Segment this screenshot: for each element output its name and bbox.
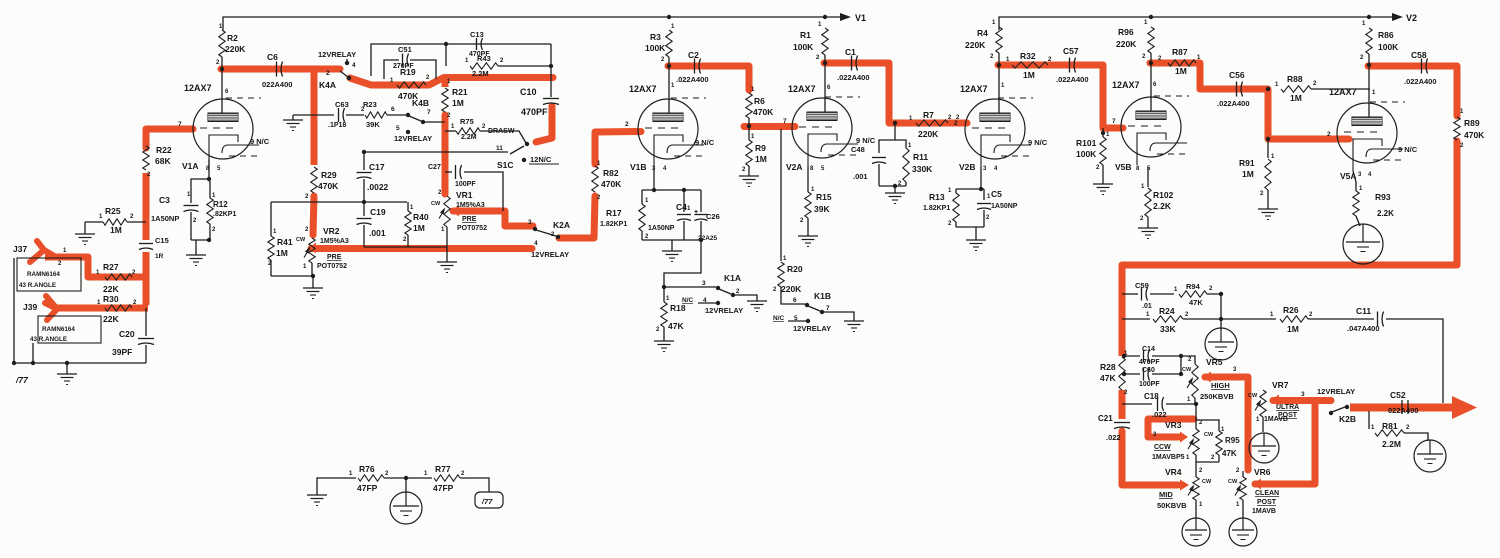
svg-text:CLEAN: CLEAN xyxy=(1255,490,1279,497)
resistor R20 xyxy=(780,129,782,261)
svg-text:12VRELAY: 12VRELAY xyxy=(793,324,831,333)
svg-text:R94: R94 xyxy=(1186,282,1201,291)
ground for R18 xyxy=(654,340,674,342)
ground for VR2 xyxy=(303,287,323,289)
svg-text:3: 3 xyxy=(1301,391,1305,398)
svg-text:1M: 1M xyxy=(110,225,122,235)
svg-text:1A50NP: 1A50NP xyxy=(991,203,1018,210)
svg-text:V5B: V5B xyxy=(1115,162,1132,172)
wire red highlight: R6/R9 node to V2A grid pin7 xyxy=(744,123,795,130)
jack ground for R81 xyxy=(1414,440,1446,472)
svg-text:K2A: K2A xyxy=(553,220,570,230)
svg-text:C11: C11 xyxy=(1356,306,1371,316)
svg-text:CW: CW xyxy=(1182,367,1192,373)
ground for R91 xyxy=(1258,208,1278,210)
capacitor C26 xyxy=(700,190,702,212)
svg-text:R29: R29 xyxy=(321,170,337,180)
wire red highlight: R21 node blob xyxy=(442,77,449,87)
wire red highlight: J37 input fork xyxy=(30,250,56,262)
svg-text:V1B: V1B xyxy=(630,162,647,172)
svg-text:12AX7: 12AX7 xyxy=(1329,87,1357,97)
resistor R81 xyxy=(1368,411,1370,429)
svg-text:12VRELAY: 12VRELAY xyxy=(1317,387,1355,396)
svg-text:R7: R7 xyxy=(923,110,934,120)
svg-text:R1: R1 xyxy=(800,30,811,40)
svg-text:1MAVB: 1MAVB xyxy=(1264,416,1288,423)
svg-text:CW: CW xyxy=(1248,393,1258,399)
svg-text:220K: 220K xyxy=(965,40,986,50)
svg-text:RAMN6164: RAMN6164 xyxy=(42,326,75,333)
svg-text:R76: R76 xyxy=(359,464,375,474)
svg-text:250KBVB: 250KBVB xyxy=(1200,392,1234,401)
svg-text:R40: R40 xyxy=(413,212,429,222)
cathode network V1B xyxy=(653,167,655,190)
svg-text:R75: R75 xyxy=(460,117,474,126)
jack ground for VR7 xyxy=(1249,433,1279,463)
jack ground VR5 node xyxy=(1220,319,1222,329)
svg-text:12AX7: 12AX7 xyxy=(1112,80,1140,90)
svg-text:POST: POST xyxy=(1257,499,1277,506)
svg-text:R6: R6 xyxy=(754,96,765,106)
svg-text:50KBVB: 50KBVB xyxy=(1157,501,1187,510)
svg-text:CCW: CCW xyxy=(1154,444,1171,451)
svg-text:1.82KP1: 1.82KP1 xyxy=(600,221,627,228)
capacitor C5 xyxy=(983,189,985,200)
svg-text:220K: 220K xyxy=(1116,39,1137,49)
svg-text:VR7: VR7 xyxy=(1272,380,1289,390)
svg-text:.022A400: .022A400 xyxy=(837,73,870,82)
svg-text:C5: C5 xyxy=(991,189,1002,199)
svg-text:R2: R2 xyxy=(227,33,238,43)
svg-text:100K: 100K xyxy=(1378,42,1399,52)
svg-text:C63: C63 xyxy=(335,100,349,109)
svg-text:POT0752: POT0752 xyxy=(457,225,487,232)
resistor R22 xyxy=(143,146,149,170)
svg-text:220K: 220K xyxy=(225,44,246,54)
svg-text:C13: C13 xyxy=(470,30,484,39)
svg-text:/77: /77 xyxy=(15,375,29,385)
svg-text:R18: R18 xyxy=(670,303,686,313)
wire C11 to output node xyxy=(1386,319,1443,403)
relay contact K1A xyxy=(664,286,716,288)
svg-text:R87: R87 xyxy=(1172,47,1188,57)
svg-text:C4: C4 xyxy=(676,202,687,212)
svg-text:C26: C26 xyxy=(706,212,720,221)
wire red highlight: C10 down to S1C pin 10 xyxy=(536,106,552,142)
svg-text:1.82KP1: 1.82KP1 xyxy=(923,205,950,212)
ground for VR1/C19/R40 xyxy=(437,261,457,263)
svg-text:C27: C27 xyxy=(428,164,441,171)
svg-text:MID: MID xyxy=(1159,490,1173,499)
svg-text:R22: R22 xyxy=(156,145,172,155)
ground for V1B cathode xyxy=(662,250,682,252)
svg-text:4: 4 xyxy=(534,240,538,247)
svg-text:39K: 39K xyxy=(814,204,830,214)
ground for R25 xyxy=(84,222,86,234)
capacitor C59 xyxy=(1122,293,1138,295)
ground for V2B cathode xyxy=(966,239,986,241)
svg-text:R41: R41 xyxy=(277,237,293,247)
svg-text:C10: C10 xyxy=(520,87,537,97)
svg-text:R25: R25 xyxy=(105,206,121,216)
switch S1C xyxy=(525,142,529,146)
wire red highlight: VR7 wiper arrow line to K2B xyxy=(1271,395,1279,406)
svg-text:K1B: K1B xyxy=(814,291,831,301)
svg-text:270PF: 270PF xyxy=(393,63,414,70)
svg-text:R102: R102 xyxy=(1153,190,1174,200)
svg-text:R28: R28 xyxy=(1100,362,1116,372)
capacitor C19 xyxy=(362,200,366,204)
wire input ground bus xyxy=(14,362,146,364)
wire V1 plate supply bus xyxy=(223,17,843,30)
wire cathode bottom join V2B xyxy=(956,226,984,228)
ground for R102 xyxy=(1138,227,1158,229)
svg-text:12AX7: 12AX7 xyxy=(184,83,212,93)
svg-text:47K: 47K xyxy=(1189,298,1203,307)
svg-text:2.2K: 2.2K xyxy=(1153,201,1172,211)
svg-text:CW: CW xyxy=(1204,432,1214,438)
svg-text:N/C: N/C xyxy=(773,315,785,322)
resistor R13 xyxy=(955,189,957,193)
svg-text:470K: 470K xyxy=(398,91,419,101)
svg-text:J39: J39 xyxy=(23,302,37,312)
potentiometer VR3 CCW xyxy=(1195,404,1197,429)
svg-text:9 N/C: 9 N/C xyxy=(1398,145,1418,154)
svg-text:VR3: VR3 xyxy=(1165,420,1182,430)
svg-text:R86: R86 xyxy=(1378,30,1394,40)
wire red highlight: below R89 down to bottom return line xyxy=(1122,141,1457,265)
wire red highlight: VR3 loop arrow xyxy=(1148,419,1194,437)
svg-text:47FP: 47FP xyxy=(433,483,454,493)
capacitor C51 xyxy=(384,60,399,79)
cathode network V1A xyxy=(208,159,210,179)
svg-text:.022A400: .022A400 xyxy=(1404,77,1437,86)
ground for R76 xyxy=(307,494,327,496)
svg-text:C52: C52 xyxy=(1390,390,1406,400)
svg-text:470K: 470K xyxy=(1464,130,1485,140)
svg-text:220K: 220K xyxy=(781,284,802,294)
svg-text:C20: C20 xyxy=(119,329,135,339)
wire J37 left leg to bottom bus xyxy=(13,258,15,363)
wire red highlight: big output arrow xyxy=(1452,396,1477,419)
svg-text:1M: 1M xyxy=(1023,70,1035,80)
svg-text:1M: 1M xyxy=(1175,66,1187,76)
wire VR3 bottom to VR4 xyxy=(1195,455,1197,477)
svg-text:330K: 330K xyxy=(912,164,933,174)
resistor R101 xyxy=(1101,131,1105,135)
wire red highlight: C21 down and right to VR4 wiper arrow xyxy=(1122,431,1178,485)
svg-text:100K: 100K xyxy=(793,42,814,52)
svg-text:HIGH: HIGH xyxy=(1211,381,1230,390)
svg-text:7: 7 xyxy=(427,109,431,116)
svg-text:R43: R43 xyxy=(477,54,491,63)
wire red highlight: J37 to R27 line xyxy=(45,257,146,277)
svg-text:022A400: 022A400 xyxy=(1388,406,1418,415)
svg-text:CW: CW xyxy=(296,237,306,243)
capacitor C60 xyxy=(1122,372,1126,376)
capacitor C20 xyxy=(145,308,147,336)
svg-text:C56: C56 xyxy=(1229,70,1245,80)
wire red highlight: R29 to VR2 top xyxy=(313,196,314,235)
ground for R101 xyxy=(1093,183,1113,185)
wire VR2 bottom to ground xyxy=(311,263,313,276)
svg-text:R20: R20 xyxy=(787,264,803,274)
svg-text:3: 3 xyxy=(702,280,706,287)
wire red highlight: VR1 wiper to K2A pin3 xyxy=(451,206,459,217)
svg-text:V2B: V2B xyxy=(959,162,976,172)
svg-text:9 N/C: 9 N/C xyxy=(1028,138,1048,147)
wire K1A feed xyxy=(664,240,701,287)
svg-text:39K: 39K xyxy=(366,120,380,129)
svg-text:.01: .01 xyxy=(1142,303,1152,310)
svg-text:ULTRA: ULTRA xyxy=(1276,404,1299,411)
wire red highlight: V5A plate node through C58 and down right edge xyxy=(1368,66,1457,116)
svg-text:.1P18: .1P18 xyxy=(328,122,346,129)
svg-text:C48: C48 xyxy=(851,145,865,154)
svg-text:1M: 1M xyxy=(755,154,767,164)
wire red highlight: J39/R30 line to C20 node xyxy=(52,305,148,312)
svg-text:3: 3 xyxy=(528,219,532,226)
wire J39 left leg xyxy=(32,343,34,363)
svg-text:12N/C: 12N/C xyxy=(530,155,552,164)
svg-text:R91: R91 xyxy=(1239,158,1255,168)
svg-text:1M5%A3: 1M5%A3 xyxy=(320,238,349,245)
svg-text:9 N/C: 9 N/C xyxy=(856,136,876,145)
svg-text:7: 7 xyxy=(826,305,830,312)
ground for C48/R11 xyxy=(885,192,905,194)
wire red highlight: R21 bottom to VR1 top xyxy=(442,115,449,194)
svg-text:.0022: .0022 xyxy=(367,182,389,192)
svg-text:1M: 1M xyxy=(1290,93,1302,103)
svg-text:C14: C14 xyxy=(1142,346,1155,353)
svg-text:12AX7: 12AX7 xyxy=(960,84,988,94)
svg-text:1A50NP: 1A50NP xyxy=(648,225,675,232)
svg-text:1M: 1M xyxy=(413,223,425,233)
svg-text:1M: 1M xyxy=(1287,324,1299,334)
svg-text:470K: 470K xyxy=(601,179,622,189)
resistor R9 xyxy=(748,127,750,140)
jack ground center tap xyxy=(405,478,407,493)
jack ground for VR4 xyxy=(1182,518,1210,546)
svg-text:.001: .001 xyxy=(853,172,868,181)
svg-text:2: 2 xyxy=(1327,131,1331,138)
resistor R91 xyxy=(1266,137,1270,141)
chassis ground /77 symbol xyxy=(475,492,503,508)
svg-text:68K: 68K xyxy=(155,156,171,166)
resistor R18 xyxy=(663,287,665,302)
svg-text:5: 5 xyxy=(396,125,400,132)
svg-text:100PF: 100PF xyxy=(1139,381,1160,388)
svg-text:K1A: K1A xyxy=(724,273,741,283)
svg-text:R26: R26 xyxy=(1283,305,1299,315)
capacitor C48 xyxy=(879,123,895,153)
svg-text:022A400: 022A400 xyxy=(262,80,292,89)
svg-text:C17: C17 xyxy=(369,162,385,172)
svg-text:CW: CW xyxy=(1202,479,1212,485)
resistor R75 xyxy=(445,130,456,132)
svg-text:VR1: VR1 xyxy=(456,190,473,200)
svg-text:2.2M: 2.2M xyxy=(461,134,477,141)
svg-text:C21: C21 xyxy=(1098,414,1113,423)
svg-text:J37: J37 xyxy=(13,244,27,254)
svg-text:22K: 22K xyxy=(103,314,119,324)
ground for K1B xyxy=(844,320,864,322)
svg-text:V2: V2 xyxy=(1406,13,1417,23)
svg-text:C3: C3 xyxy=(159,195,170,205)
svg-text:2.2K: 2.2K xyxy=(1377,209,1394,218)
wire C48/R11 bottom join xyxy=(879,185,906,187)
svg-text:C2: C2 xyxy=(688,50,699,60)
capacitor C15 xyxy=(139,243,153,245)
svg-text:.022A400: .022A400 xyxy=(1056,75,1089,84)
svg-text:9 N/C: 9 N/C xyxy=(250,137,270,146)
ground for C63 line xyxy=(292,115,294,120)
svg-text:1M: 1M xyxy=(452,98,464,108)
svg-text:43 R.ANGLE: 43 R.ANGLE xyxy=(30,336,67,343)
svg-text:R81: R81 xyxy=(1382,421,1398,431)
capacitor C27 parallel over VR1 xyxy=(445,171,452,173)
wire red highlight: K4A pin3 through R19 to R21/C10 node xyxy=(350,78,553,86)
resistor R29 xyxy=(311,167,317,193)
svg-text:R32: R32 xyxy=(1020,51,1036,61)
svg-text:47K: 47K xyxy=(668,321,684,331)
wire red highlight: input riser through C15 and R22 to V1A grid pin7 xyxy=(143,252,150,305)
resistor R17 xyxy=(641,190,643,204)
svg-text:470K: 470K xyxy=(318,181,339,191)
svg-text:2: 2 xyxy=(954,120,958,127)
svg-text:2: 2 xyxy=(625,121,629,128)
svg-text:.047A400: .047A400 xyxy=(1347,324,1380,333)
svg-text:.82KP1: .82KP1 xyxy=(213,211,236,218)
wire VR2 grid node xyxy=(271,201,407,203)
jack ground for VR6 xyxy=(1229,518,1257,546)
svg-text:C19: C19 xyxy=(370,207,386,217)
svg-text:R24: R24 xyxy=(1159,306,1175,316)
svg-text:.022: .022 xyxy=(1106,433,1121,442)
wire cathode bottom bus V1B xyxy=(642,239,701,241)
ground for V1A cathode xyxy=(186,254,206,256)
svg-text:CW: CW xyxy=(1228,479,1238,485)
svg-text:K4A: K4A xyxy=(319,80,336,90)
svg-text:RAMN6164: RAMN6164 xyxy=(27,271,60,278)
svg-text:V1: V1 xyxy=(855,13,866,23)
wire cathode bottom join xyxy=(191,239,210,241)
svg-text:.022A400: .022A400 xyxy=(1217,99,1250,108)
svg-text:47K: 47K xyxy=(1100,373,1116,383)
svg-text:1M5%A3: 1M5%A3 xyxy=(456,202,485,209)
resistor R95 xyxy=(1196,420,1219,431)
svg-text:R9: R9 xyxy=(755,143,766,153)
cathode network V5B resistor R102 xyxy=(1147,167,1149,187)
wire red highlight: VR6 wiper arrow line up to K2B pin3 xyxy=(1253,479,1261,490)
svg-text:7: 7 xyxy=(1112,118,1116,125)
wire red highlight: V2B plate through R32 and C57 down to V5B grid pin7 xyxy=(998,65,1123,128)
cathode network V2B xyxy=(980,167,982,189)
svg-text:PRE: PRE xyxy=(327,254,342,261)
jack ground for V5A cathode xyxy=(1343,224,1383,264)
cathode network V2A resistor R15 xyxy=(807,166,809,192)
svg-text:12AX7: 12AX7 xyxy=(629,84,657,94)
svg-text:R17: R17 xyxy=(606,208,622,218)
resistor R40 xyxy=(407,202,409,211)
resistor R12 xyxy=(209,179,210,198)
wire red highlight: drop from C6 line to R29 xyxy=(311,70,318,165)
svg-text:R27: R27 xyxy=(103,262,119,272)
svg-text:12AX7: 12AX7 xyxy=(788,84,816,94)
svg-text:S1C: S1C xyxy=(497,160,514,170)
svg-text:1A50NP: 1A50NP xyxy=(151,214,179,223)
svg-text:11: 11 xyxy=(496,145,503,152)
svg-text:.022A400: .022A400 xyxy=(676,75,709,84)
svg-text:2: 2 xyxy=(326,70,330,77)
svg-text:R88: R88 xyxy=(1287,74,1303,84)
capacitor C18 xyxy=(1122,403,1152,405)
svg-text:VR2: VR2 xyxy=(323,226,340,236)
svg-text:C15: C15 xyxy=(155,236,169,245)
wire red highlight: K2A pin2 up through R82 to V1B grid xyxy=(559,196,595,238)
wire red highlight: R28 to C21 xyxy=(1119,390,1126,419)
svg-text:C1: C1 xyxy=(845,47,856,57)
svg-text:39PF: 39PF xyxy=(112,347,132,357)
ground for K1A xyxy=(747,300,767,302)
svg-text:R4: R4 xyxy=(977,28,988,38)
svg-text:R96: R96 xyxy=(1118,27,1134,37)
svg-text:43 R.ANGLE: 43 R.ANGLE xyxy=(19,282,56,289)
svg-text:6: 6 xyxy=(793,297,797,304)
svg-text:.022: .022 xyxy=(1152,410,1167,419)
svg-text:R12: R12 xyxy=(213,200,228,209)
svg-text:100PF: 100PF xyxy=(455,181,476,188)
svg-text:DRASW: DRASW xyxy=(488,128,515,135)
capacitor C14 xyxy=(1122,354,1126,358)
svg-text:.001: .001 xyxy=(369,228,386,238)
svg-text:VR4: VR4 xyxy=(1165,467,1182,477)
svg-text:C51: C51 xyxy=(398,45,412,54)
ground for R15 xyxy=(798,235,818,237)
svg-text:12VRELAY: 12VRELAY xyxy=(531,250,569,259)
svg-text:R11: R11 xyxy=(913,152,928,162)
wire red highlight: K2B pin2 output through C52 to big arrow xyxy=(1350,404,1452,412)
wire red highlight: down left side of tone stack to R28 xyxy=(1119,265,1126,356)
svg-text:R30: R30 xyxy=(103,294,119,304)
svg-text:1MAVB: 1MAVB xyxy=(1252,508,1276,515)
svg-text:7: 7 xyxy=(783,118,787,125)
svg-text:1M: 1M xyxy=(1242,169,1254,179)
svg-text:470K: 470K xyxy=(753,107,774,117)
wire red highlight: through C56 down to V5A grid xyxy=(1200,89,1349,139)
relay contact K1B xyxy=(781,287,805,304)
resistor R93 xyxy=(1353,171,1356,191)
svg-text:C57: C57 xyxy=(1063,46,1079,56)
svg-text:R82: R82 xyxy=(603,168,619,178)
svg-text:470PF: 470PF xyxy=(521,107,548,117)
svg-text:1R: 1R xyxy=(155,253,164,260)
wire red highlight: V5B plate through R87 xyxy=(1150,63,1200,89)
capacitor C17 xyxy=(363,152,365,170)
svg-text:100K: 100K xyxy=(645,43,666,53)
wire red highlight: V1B plate through C2 down to R6 xyxy=(668,66,749,90)
resistor R88 xyxy=(1266,87,1270,91)
svg-text:2.2M: 2.2M xyxy=(1382,439,1401,449)
svg-text:9 N/C: 9 N/C xyxy=(695,138,715,147)
svg-text:33K: 33K xyxy=(1160,324,1176,334)
svg-text:C60: C60 xyxy=(1142,367,1155,374)
svg-text:V2A: V2A xyxy=(786,162,803,172)
wire feedback line xyxy=(1222,318,1276,320)
svg-text:470PF: 470PF xyxy=(1139,359,1160,366)
svg-text:R15: R15 xyxy=(816,192,832,202)
wire ground bus under VR1 xyxy=(364,246,447,248)
